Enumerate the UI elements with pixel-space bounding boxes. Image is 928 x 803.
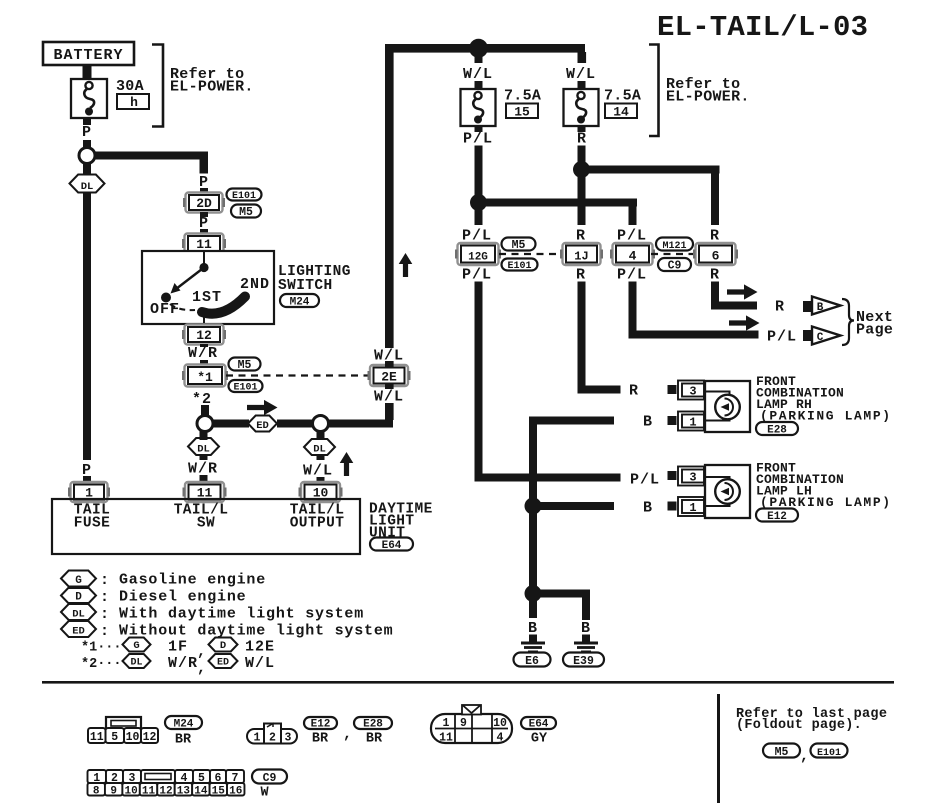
svg-text:SW: SW	[197, 516, 215, 532]
wire to connector *1	[200, 360, 208, 366]
svg-text:(Foldout page).: (Foldout page).	[736, 718, 862, 733]
junction R	[573, 161, 590, 178]
svg-text:W/R: W/R	[188, 461, 218, 478]
svg-text:,: ,	[197, 644, 207, 661]
wire circle to ED flag	[213, 420, 249, 428]
wire to connector 4	[629, 242, 637, 246]
svg-text:BR: BR	[175, 733, 192, 748]
svg-text:SWITCH: SWITCH	[278, 278, 333, 294]
connector 11 lighting switch	[182, 234, 226, 254]
svg-text:11: 11	[196, 237, 212, 252]
svg-text:14: 14	[194, 786, 208, 798]
svg-text:E101: E101	[233, 383, 257, 394]
svg-text:4: 4	[629, 249, 637, 264]
connector 1 tail fuse	[68, 482, 110, 502]
fuse id box 14	[605, 104, 637, 120]
pinout id E64	[521, 717, 556, 731]
wire down E39	[582, 593, 590, 620]
svg-text:2D: 2D	[196, 196, 212, 211]
svg-text:W/R: W/R	[168, 655, 198, 672]
svg-text:7.5A: 7.5A	[604, 88, 641, 105]
wire stub lamp LH pin 1	[668, 502, 677, 511]
connector id M5	[763, 744, 800, 760]
svg-text:E12: E12	[767, 511, 787, 523]
svg-text:1J: 1J	[574, 250, 588, 264]
svg-text:12: 12	[196, 328, 212, 343]
pinout id E28	[354, 717, 392, 731]
svg-text:OFF: OFF	[150, 301, 180, 318]
svg-text:M5: M5	[238, 359, 252, 372]
svg-text:9: 9	[460, 717, 467, 730]
svg-text:P/L: P/L	[462, 267, 492, 284]
svg-text:G: G	[75, 575, 82, 587]
svg-text:,: ,	[197, 660, 207, 677]
svg-text:BR: BR	[312, 732, 329, 747]
svg-text:DL: DL	[130, 658, 142, 669]
svg-text:11: 11	[439, 732, 453, 745]
svg-text:E12: E12	[311, 719, 331, 731]
wire connector 6 down	[711, 282, 719, 310]
svg-text:12E: 12E	[245, 639, 275, 656]
wire label P to connector 11	[200, 229, 208, 236]
svg-text:E64: E64	[382, 540, 402, 552]
connector id E101	[229, 380, 263, 394]
wire corner to next page B	[711, 302, 757, 310]
wire W/L to connector 10	[317, 477, 325, 485]
svg-text:R: R	[576, 267, 586, 284]
svg-text:W/L: W/L	[303, 463, 333, 480]
svg-text:B: B	[643, 500, 653, 517]
junction circle tail/l output	[313, 416, 329, 432]
svg-text:G: G	[133, 640, 139, 652]
wire junction to W/L label	[475, 56, 483, 63]
wire circle to DL flag	[83, 163, 91, 175]
wire corner to next page C	[629, 331, 759, 339]
svg-text:12: 12	[143, 731, 157, 744]
svg-text:D: D	[220, 640, 226, 652]
legend flag D small	[209, 638, 238, 653]
wire to connector 6	[711, 242, 719, 246]
svg-text:B: B	[817, 302, 824, 314]
dashed link 12G to 1J	[499, 253, 563, 255]
svg-text:Gasoline engine: Gasoline engine	[119, 572, 266, 589]
svg-text:12: 12	[159, 786, 172, 798]
direction arrow to next page B	[727, 284, 758, 299]
svg-text:P/L: P/L	[767, 329, 797, 346]
ground id E39	[563, 653, 604, 669]
svg-text:E101: E101	[507, 261, 531, 272]
svg-text:C9: C9	[668, 260, 682, 273]
svg-text:W/L: W/L	[463, 66, 493, 83]
svg-text:With daytime light system: With daytime light system	[119, 606, 364, 623]
label gap W/L above 2E	[376, 348, 402, 361]
option flag DL	[188, 438, 219, 456]
front combination lamp LH symbol	[705, 465, 750, 518]
junction circle tail/l sw	[197, 416, 213, 432]
direction arrow up W/L	[399, 253, 413, 277]
junction B lamps	[525, 498, 542, 515]
connector id M121	[656, 238, 693, 253]
wire circle to DL	[200, 431, 208, 440]
next page terminal C	[803, 327, 841, 345]
connector id E101	[811, 744, 848, 760]
svg-text:10: 10	[493, 717, 507, 730]
pin 3 lamp LH	[678, 467, 704, 486]
fuse id box 15	[506, 104, 538, 120]
connector 4	[610, 243, 655, 265]
daytime light unit box	[52, 499, 360, 554]
wire stub lamp RH pin 1	[668, 416, 677, 425]
junction B grounds	[525, 585, 542, 602]
svg-text:GY: GY	[531, 732, 548, 747]
wire 2D to label P	[200, 212, 208, 217]
svg-text:10: 10	[126, 731, 140, 744]
switch 2ND contact arc	[202, 297, 245, 314]
fuse 7.5A no.14	[564, 89, 599, 126]
svg-text:R: R	[577, 131, 587, 148]
svg-text:9: 9	[110, 786, 117, 798]
connector id E101	[227, 189, 262, 203]
connector 2E	[368, 365, 411, 386]
wire to 1J	[578, 242, 586, 246]
svg-text:BATTERY: BATTERY	[53, 47, 123, 64]
connector id C9	[658, 258, 691, 273]
connector 6	[693, 243, 738, 265]
next page terminal B	[803, 297, 841, 315]
svg-text:8: 8	[93, 786, 100, 798]
wire battery to fuse	[83, 65, 92, 79]
legend flag G	[61, 571, 96, 588]
svg-text:10: 10	[124, 786, 137, 798]
svg-text:11: 11	[142, 786, 156, 798]
svg-text:3: 3	[689, 385, 696, 399]
svg-text:3: 3	[285, 732, 292, 745]
svg-text:ED: ED	[256, 420, 269, 432]
legend flag DL small	[123, 654, 151, 669]
svg-text:R: R	[775, 299, 785, 316]
wire label P to connector 1	[83, 476, 91, 485]
wire B to ground junction	[529, 510, 537, 594]
connector id M24	[280, 294, 319, 309]
pinout connector E12/E28	[247, 724, 297, 745]
svg-text:W/L: W/L	[245, 655, 275, 672]
wire fuse to label P	[83, 118, 91, 125]
svg-text:Diesel engine: Diesel engine	[119, 589, 246, 606]
separator line	[42, 681, 894, 684]
svg-text::: :	[100, 572, 110, 589]
wire to fuse 14	[578, 81, 586, 89]
svg-text:15: 15	[514, 105, 530, 120]
svg-text:FUSE: FUSE	[74, 516, 110, 532]
bracket refer to EL-POWER left	[152, 45, 163, 127]
wire DL to W/R	[200, 455, 208, 460]
svg-text::: :	[100, 623, 110, 640]
wire branch right to 2D	[95, 152, 207, 160]
svg-text:Page: Page	[856, 322, 893, 339]
wire corner to W/L label	[578, 52, 587, 63]
wire branch to E39 ground	[533, 590, 590, 598]
junction W/L feed	[469, 39, 488, 58]
svg-text:DL: DL	[72, 609, 85, 621]
svg-text:1ST: 1ST	[192, 289, 222, 306]
wire stub lamp LH pin 3	[668, 471, 677, 480]
legend flag D	[61, 588, 96, 604]
wire R down	[578, 146, 586, 166]
pin 1 lamp RH	[678, 412, 704, 431]
svg-text:M5: M5	[775, 746, 789, 759]
wire R to lamp RH corner	[578, 282, 586, 386]
svg-text:12G: 12G	[468, 252, 488, 264]
wire corner to lamp RH pin 3	[578, 386, 621, 394]
wire down to corner	[385, 403, 394, 420]
svg-text:D: D	[75, 592, 82, 604]
wire fuse to R label	[578, 126, 586, 132]
svg-text:*1···: *1···	[81, 641, 122, 656]
wire circle to DL	[317, 431, 325, 440]
connector 1J	[560, 243, 603, 265]
connector 11 daytime unit	[183, 482, 227, 502]
switch contact stem	[203, 317, 205, 324]
ground E39	[574, 642, 598, 654]
svg-text:DL: DL	[313, 444, 326, 456]
svg-text:OUTPUT: OUTPUT	[290, 516, 345, 532]
direction arrow right	[247, 400, 278, 415]
svg-text:6: 6	[712, 249, 720, 264]
legend flag ED	[61, 621, 96, 638]
connector 12 lighting switch	[182, 325, 226, 345]
svg-text:E28: E28	[767, 425, 787, 437]
connector id E28	[756, 422, 798, 437]
wire W/R to connector 11	[200, 475, 208, 485]
svg-text:5: 5	[111, 731, 118, 744]
svg-text:W: W	[260, 786, 269, 801]
svg-text:3: 3	[689, 471, 696, 485]
wire label P to junction circle	[83, 140, 91, 148]
wire stub ground E39	[582, 635, 590, 642]
wire connector 4 down	[629, 282, 637, 339]
svg-text:C: C	[817, 332, 824, 344]
battery	[43, 42, 134, 65]
svg-text:EL-POWER.: EL-POWER.	[170, 79, 254, 96]
svg-text:B: B	[581, 620, 591, 637]
pin 3 lamp RH	[678, 381, 704, 400]
connector id E64	[370, 538, 413, 553]
svg-text::: :	[100, 589, 110, 606]
wire 12 stub	[200, 344, 208, 347]
wire stub lamp RH pin 3	[668, 385, 677, 394]
wire to connector 2D	[200, 188, 208, 194]
fuse id box h	[117, 94, 149, 110]
option flag DL	[70, 175, 105, 194]
wire down to label P	[200, 152, 209, 174]
lighting switch box M24	[142, 251, 274, 324]
fuse 7.5A no.15	[461, 89, 496, 126]
front combination lamp RH symbol	[705, 381, 750, 432]
wire B down from lamp RH	[529, 424, 537, 506]
connector id M5	[231, 205, 261, 220]
svg-text:DL: DL	[197, 444, 210, 456]
pin 1 lamp LH	[678, 497, 704, 516]
svg-text:P/L: P/L	[463, 131, 493, 148]
svg-text:E101: E101	[817, 748, 841, 759]
switch wiper arm	[161, 251, 209, 303]
svg-text:R: R	[710, 267, 720, 284]
svg-text:ED: ED	[217, 658, 229, 669]
svg-text:EL-POWER.: EL-POWER.	[666, 89, 750, 106]
wire down to R label	[711, 173, 719, 225]
direction arrow up daytime	[340, 452, 354, 476]
svg-text:1: 1	[689, 501, 696, 515]
svg-text:M121: M121	[662, 241, 686, 252]
switch travel dashed arc	[170, 304, 195, 310]
option flag ED	[248, 416, 277, 433]
svg-text:M5: M5	[239, 206, 253, 219]
pinout id E12	[304, 717, 337, 731]
wire junction R to connector 6 branch	[582, 166, 720, 174]
fusible link 30A	[71, 79, 107, 118]
connector id M5	[502, 238, 536, 253]
svg-text:1: 1	[689, 416, 696, 430]
legend flag DL	[61, 604, 96, 621]
svg-text:30A: 30A	[116, 78, 144, 95]
svg-text:*2···: *2···	[81, 657, 122, 672]
bracket refer to EL-POWER right	[649, 45, 659, 137]
svg-text:W/L: W/L	[566, 66, 596, 83]
ground id E6	[514, 653, 551, 669]
vertical divider	[717, 694, 720, 803]
junction P/L	[470, 194, 487, 211]
pinout connector M24	[88, 717, 158, 744]
svg-text:B: B	[643, 414, 653, 431]
connector 12G	[455, 243, 501, 265]
wire to 12G	[475, 242, 483, 246]
dashed link *1 to 2E	[226, 374, 370, 376]
svg-text:M24: M24	[174, 719, 194, 731]
svg-text:,: ,	[800, 748, 810, 765]
svg-text:BR: BR	[366, 732, 383, 747]
wire to fuse 15	[475, 81, 483, 89]
svg-text:,: ,	[343, 726, 353, 743]
svg-text:13: 13	[177, 786, 191, 798]
wire top W/L feed horizontal	[385, 44, 585, 53]
pinout id C9	[252, 770, 287, 786]
svg-text:1F: 1F	[168, 639, 188, 656]
brace next page	[842, 299, 854, 345]
direction arrow to next page C	[729, 315, 760, 330]
svg-text:2ND: 2ND	[240, 276, 270, 293]
wire B lamp RH	[529, 417, 614, 425]
connector 2D	[183, 193, 225, 213]
wire 2E down	[385, 384, 394, 389]
wire corner to lamp LH pin 3	[475, 474, 621, 482]
wire down to P/L label	[629, 206, 637, 225]
svg-text:14: 14	[613, 105, 629, 120]
svg-text:P/L: P/L	[630, 472, 660, 489]
svg-text:M5: M5	[512, 239, 526, 252]
svg-text:Without daytime light system: Without daytime light system	[119, 623, 393, 640]
pinout id M24	[165, 716, 202, 731]
svg-text:P/L: P/L	[617, 267, 647, 284]
connector *1	[182, 365, 228, 387]
svg-text:7.5A: 7.5A	[504, 88, 541, 105]
svg-text:E101: E101	[232, 191, 256, 202]
wire P/L to lamp LH corner	[475, 282, 483, 482]
wire long down to tail fuse	[83, 192, 91, 460]
svg-text:11: 11	[90, 731, 104, 744]
svg-text:1: 1	[254, 732, 261, 745]
wire *2 to junction circle	[201, 405, 209, 415]
svg-text:2E: 2E	[381, 370, 397, 385]
svg-text:E28: E28	[363, 719, 383, 731]
legend flag ED small	[209, 654, 238, 669]
svg-text:1: 1	[443, 717, 450, 730]
wire stub ground E6	[529, 635, 537, 642]
wire P/L down	[475, 146, 483, 199]
svg-text:E39: E39	[573, 655, 594, 668]
connector 10 daytime unit	[299, 482, 343, 502]
wire fuse to P/L	[475, 126, 483, 132]
svg-text:P: P	[82, 124, 92, 141]
connector id M5	[229, 358, 261, 373]
pinout connector E64	[431, 705, 512, 745]
legend flag G small	[123, 638, 151, 653]
svg-text:DL: DL	[81, 181, 94, 193]
svg-text:W/R: W/R	[188, 345, 218, 362]
pinout connector C9	[88, 770, 245, 798]
svg-text:ED: ED	[72, 626, 85, 638]
svg-text:C9: C9	[263, 772, 277, 785]
svg-text:EL-TAIL/L-03: EL-TAIL/L-03	[657, 11, 868, 44]
ground E6	[521, 642, 545, 654]
svg-text:4: 4	[497, 732, 504, 745]
svg-text:W/L: W/L	[374, 389, 404, 406]
svg-text:2: 2	[269, 732, 276, 745]
svg-text:B: B	[528, 620, 538, 637]
wire W/L vertical long	[385, 52, 394, 348]
wire corner to junction circle	[328, 420, 393, 428]
wire to R label	[578, 173, 586, 225]
dashed link 4 to 6	[651, 253, 697, 255]
svg-text:15: 15	[212, 786, 226, 798]
svg-text:16: 16	[229, 786, 242, 798]
svg-text:E6: E6	[525, 655, 539, 668]
svg-text:*1: *1	[197, 370, 213, 385]
wire to P/L label	[475, 206, 483, 225]
option flag DL	[304, 439, 335, 456]
svg-text:E64: E64	[529, 719, 549, 731]
svg-text:M24: M24	[290, 297, 310, 309]
wire down E6	[529, 600, 537, 618]
connector id E101	[502, 259, 538, 273]
wire ED to circle	[277, 420, 313, 428]
svg-text::: :	[100, 606, 110, 623]
svg-text:R: R	[629, 383, 639, 400]
wire DL to W/L	[317, 455, 325, 460]
wire junction P/L to connector 4 branch	[478, 199, 637, 207]
wire B lamp LH	[533, 502, 614, 510]
svg-text:h: h	[130, 95, 138, 110]
wire to 2E	[385, 361, 394, 367]
connector id E12	[756, 509, 798, 524]
junction circle battery	[79, 148, 95, 164]
